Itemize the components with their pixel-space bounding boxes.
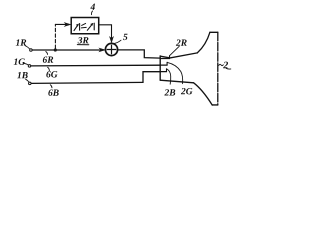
svg-text:6B: 6B: [48, 89, 59, 99]
svg-text:6R: 6R: [42, 56, 53, 66]
arrowhead into adder: [110, 37, 114, 43]
svg-text:5: 5: [123, 33, 128, 43]
CRT top edge: [210, 31, 218, 33]
leader 5: [115, 40, 121, 43]
adder circle 5: [105, 43, 117, 55]
terminal 1B: [29, 82, 32, 85]
CRT bottom edge: [212, 104, 218, 106]
CRT neck left edge: [159, 56, 161, 80]
CRT bottom flare: [194, 83, 213, 105]
gun G line: [160, 64, 167, 66]
gun R line: [160, 58, 169, 60]
leader 2G curve: [167, 62, 182, 83]
gun G end tick: [166, 62, 168, 65]
box 3R (gamma corrector): [71, 17, 99, 33]
svg-text:2R: 2R: [175, 39, 187, 49]
wire adder to CRT: [118, 50, 160, 58]
gun B line: [160, 71, 166, 73]
leader 1B: [26, 79, 29, 82]
leader 1R: [25, 46, 29, 49]
wire 6B: [31, 82, 143, 83]
arrowhead into box: [65, 23, 71, 27]
svg-text:1R: 1R: [16, 39, 27, 49]
CRT top flare: [197, 32, 210, 53]
svg-text:2G: 2G: [180, 87, 193, 97]
wire 6G: [31, 64, 160, 67]
svg-text:2: 2: [222, 60, 228, 71]
wire 6R: [32, 49, 103, 51]
label 2 leader tilde: [219, 64, 224, 65]
leader 6B: [50, 85, 52, 88]
box symbol right arrow: [87, 24, 92, 31]
box symbol middle: [82, 23, 86, 25]
CRT neck top edge: [160, 53, 197, 58]
terminal 1G: [28, 65, 31, 68]
box output wire to adder: [99, 25, 112, 38]
svg-text:6G: 6G: [46, 70, 58, 80]
leader 6G: [48, 67, 50, 71]
gun R end tick: [169, 56, 171, 59]
gun B end tick: [165, 69, 167, 72]
box symbol left bar: [79, 23, 81, 30]
adder plus: [107, 45, 116, 54]
label 2 underline: [226, 67, 231, 70]
leader 1G: [24, 63, 28, 64]
arrowhead wire into adder (left): [99, 48, 105, 52]
control line into box 3R: [55, 23, 65, 25]
wire 6B jog up: [143, 72, 160, 83]
CRT face: [217, 32, 219, 105]
leader 6R: [46, 51, 48, 54]
svg-text:2B: 2B: [163, 89, 175, 99]
box symbol left arrow: [74, 24, 78, 30]
leader 2B curve: [167, 69, 171, 84]
CRT neck bottom edge: [160, 80, 193, 83]
junction dot on wire 6R: [54, 48, 57, 51]
leader 2R: [170, 46, 179, 55]
dashed control line from junction: [54, 24, 56, 48]
terminal 1R: [30, 49, 33, 52]
svg-text:1G: 1G: [13, 58, 25, 68]
underline 3R: [77, 44, 89, 46]
leader 4: [91, 11, 92, 15]
